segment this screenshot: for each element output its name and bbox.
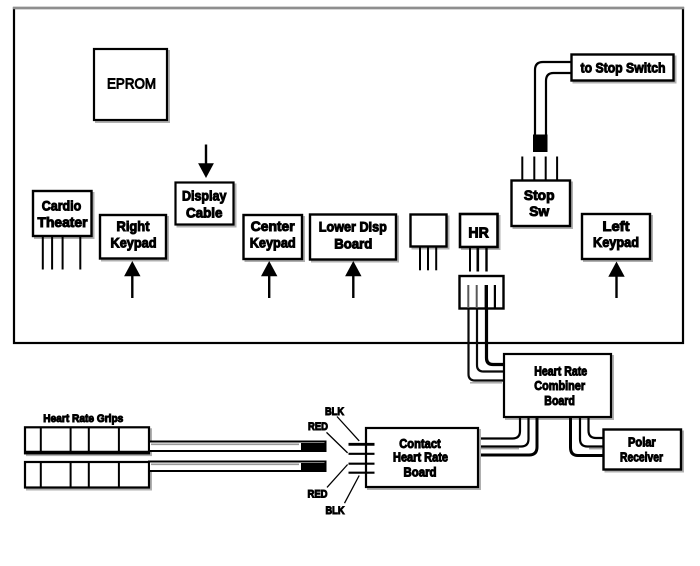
Polar Receiver	[604, 430, 684, 472]
Heart Rate Combiner Board	[504, 354, 613, 419]
lower grip cable	[149, 462, 326, 472]
contact board terminal stub 3	[349, 463, 375, 465]
heart rate grip (lower)	[25, 462, 151, 490]
svg-text:Sw: Sw	[529, 203, 549, 219]
svg-text:to Stop Switch: to Stop Switch	[581, 60, 666, 76]
wire: combiner to contact board 2	[478, 418, 529, 447]
Cardio Theater pin 1	[42, 237, 44, 270]
svg-text:Left: Left	[603, 218, 630, 234]
arrow to Right Keypad	[124, 261, 140, 298]
HR sensor package	[460, 214, 500, 249]
leader line RED lower	[327, 465, 348, 488]
svg-text:Keypad: Keypad	[111, 235, 157, 251]
svg-text:Combiner: Combiner	[534, 379, 585, 393]
Cardio Theater pin 3	[62, 237, 64, 270]
leader line RED upper	[327, 432, 348, 453]
arrow to Center Keypad	[261, 261, 277, 298]
J1 tooth 3	[485, 285, 488, 308]
Left Keypad	[582, 214, 652, 261]
heart rate grip (upper)	[24, 427, 151, 455]
Cardio Theater pin 4	[79, 237, 81, 270]
svg-text:Keypad: Keypad	[593, 234, 639, 250]
transistor Q1 (blank TO-92 package)	[411, 215, 449, 249]
svg-text:Contact: Contact	[399, 437, 441, 451]
Stop Sw pin 2	[533, 157, 535, 181]
wire shadow (polar run)	[589, 448, 602, 450]
upper grip cable	[149, 442, 326, 452]
svg-text:Heart Rate: Heart Rate	[534, 365, 587, 379]
EPROM U1	[94, 49, 169, 122]
Contact Heart Rate Board	[366, 428, 480, 489]
HR pin 1	[469, 247, 471, 272]
wire: HR connector to combiner (black heavy)	[487, 309, 505, 365]
svg-text:Cardio: Cardio	[42, 197, 82, 213]
svg-text:Board: Board	[334, 235, 372, 251]
arrow to Lower Disp Board	[345, 261, 361, 298]
svg-text:Board: Board	[544, 394, 575, 408]
Stop Sw pin 1	[521, 157, 523, 181]
svg-text:Board: Board	[404, 465, 437, 479]
J1 tooth 2	[476, 285, 478, 308]
svg-text:Keypad: Keypad	[250, 235, 296, 251]
svg-text:Lower DIsp: Lower DIsp	[319, 219, 387, 235]
wire: HR connector to combiner (middle)	[477, 309, 504, 372]
wire: combiner to polar receiver 3 (heavy)	[571, 418, 604, 456]
svg-text:EPROM: EPROM	[107, 76, 156, 93]
console board top edge (gray)	[13, 7, 684, 9]
wire: combiner to contact board 3 (heavy)	[478, 418, 537, 456]
Stop Sw switch S1	[512, 181, 573, 229]
J1 tooth 1	[467, 285, 469, 308]
to Stop Switch label box	[572, 55, 676, 83]
leader line BLK upper	[337, 417, 359, 441]
wire: stop switch cable lower conductor	[546, 73, 572, 150]
svg-text:Theater: Theater	[38, 214, 89, 230]
console board outline	[14, 8, 683, 343]
leader line BLK lower	[345, 476, 360, 504]
Cardio Theater board	[33, 191, 94, 238]
J1 tooth 4	[494, 285, 496, 308]
arrow to Display Cable (downward)	[198, 145, 214, 179]
svg-text:RED: RED	[308, 421, 328, 433]
svg-text:Heart Rate: Heart Rate	[393, 451, 448, 465]
Center Keypad	[244, 215, 305, 261]
wire: combiner to polar receiver 2	[580, 418, 604, 447]
svg-text:HR: HR	[468, 225, 489, 242]
svg-text:Display: Display	[182, 188, 227, 204]
Display Cable	[176, 183, 236, 227]
Right Keypad	[100, 215, 168, 261]
Lower Disp Board	[310, 215, 398, 262]
svg-text:Polar: Polar	[628, 435, 656, 449]
stop switch cable connector (black block)	[533, 135, 548, 153]
Q1 pin 1	[419, 247, 421, 271]
svg-text:RED: RED	[308, 489, 328, 501]
contact board terminal stub 2	[349, 453, 375, 455]
svg-text:Cable: Cable	[186, 205, 223, 221]
svg-text:BLK: BLK	[326, 505, 345, 517]
contact board terminal stub 4	[349, 472, 375, 474]
Q1 pin 2	[427, 247, 429, 271]
HR pin 2	[476, 247, 479, 272]
svg-text:Stop: Stop	[524, 187, 555, 203]
wire shadow (contact run)	[480, 448, 519, 450]
wire: stop switch cable upper conductor	[535, 62, 572, 150]
wire: combiner to polar receiver 1	[589, 418, 604, 439]
contact board terminal stub 1	[349, 443, 375, 446]
Cardio Theater pin 2	[51, 237, 53, 270]
svg-text:Heart Rate Grips: Heart Rate Grips	[43, 413, 123, 425]
Stop Sw pin 4	[556, 157, 558, 181]
wire: HR connector to combiner (left)	[469, 309, 505, 381]
wire shadow (combiner left entry)	[470, 382, 502, 384]
Stop Sw pin 3	[545, 157, 547, 181]
svg-text:Receiver: Receiver	[620, 450, 663, 464]
svg-text:Center: Center	[251, 218, 296, 234]
Q1 pin 3	[435, 247, 437, 271]
svg-text:Right: Right	[117, 218, 150, 234]
HR pin 3	[485, 247, 487, 272]
HR connector J1	[460, 276, 504, 309]
svg-text:BLK: BLK	[325, 406, 344, 418]
arrow to Left Keypad	[608, 262, 624, 299]
wire: combiner to contact board 1	[478, 418, 520, 439]
